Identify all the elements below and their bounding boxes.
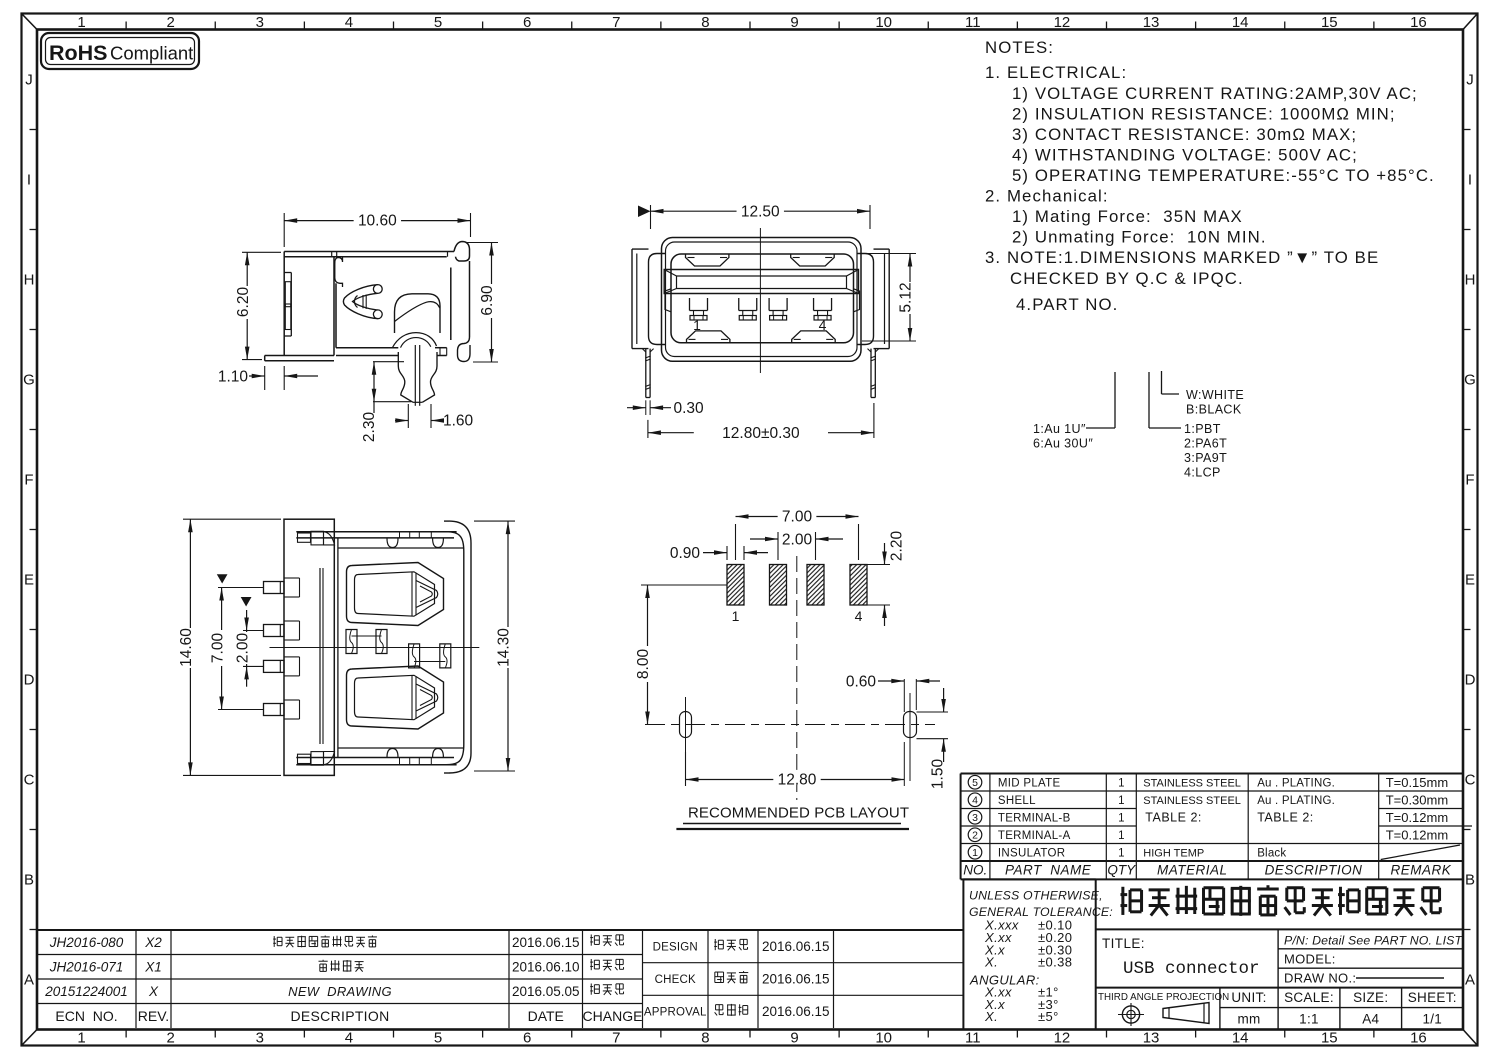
dim 12.50 [650,205,652,229]
svg-text:1: 1 [972,847,978,859]
dim 0.30 [645,400,647,415]
svg-text:D: D [1465,672,1476,689]
svg-text:SCALE:: SCALE: [1284,990,1334,1005]
top view: terminal pins [264,582,285,594]
svg-text:8.00: 8.00 [635,649,652,680]
dim 7.00 with datum [217,574,228,583]
svg-text:11: 11 [965,14,981,31]
side view: shell rear rolled edge [335,257,343,287]
svg-text:1: 1 [1118,777,1124,789]
svg-text:T=0.30mm: T=0.30mm [1386,792,1449,807]
corner diagonals [22,14,38,30]
svg-text:I: I [1468,172,1472,189]
svg-text:1: 1 [1118,847,1124,859]
projection symbol circle [1122,1006,1139,1023]
svg-text:DESIGN: DESIGN [653,941,698,953]
front view: shell opening rounded rect [671,254,854,343]
front view: tongue blade [664,270,858,294]
svg-text:0.30: 0.30 [674,400,705,417]
svg-text:ECN NO.: ECN NO. [55,1008,117,1024]
svg-text:1:Au 1U″: 1:Au 1U″ [1033,422,1086,436]
dim 2.00 with datum [241,597,252,607]
svg-text:0.90: 0.90 [670,545,701,562]
svg-text:5: 5 [434,14,442,31]
svg-text:10.60: 10.60 [358,213,397,230]
svg-text:X2: X2 [144,935,162,950]
svg-text:±5°: ±5° [1038,1009,1059,1024]
projection symbol cone [1163,1003,1209,1024]
svg-text:1. ELECTRICAL:: 1. ELECTRICAL: [985,63,1127,82]
svg-text:1:1: 1:1 [1299,1012,1319,1027]
svg-text:TERMINAL-B: TERMINAL-B [998,812,1071,824]
svg-text:X.: X. [984,1009,998,1024]
svg-text:14.30: 14.30 [496,628,513,667]
svg-text:8: 8 [701,1030,709,1047]
unit/scale/size/sheet grid [1219,988,1221,1030]
svg-text:F: F [24,472,33,489]
dim 7.00 pcb [735,524,737,560]
svg-text:2016.06.15: 2016.06.15 [762,972,830,987]
top view: U contact upper [347,563,444,626]
dim 1.50 pcb [917,711,949,713]
dim 0.60 pcb [903,679,905,712]
svg-text:RECOMMENDED PCB LAYOUT: RECOMMENDED PCB LAYOUT [688,805,909,822]
svg-text:12.80: 12.80 [778,772,817,789]
svg-text:10: 10 [875,14,892,31]
svg-text:6.90: 6.90 [479,285,496,316]
svg-text:H: H [24,272,35,289]
svg-text:Black: Black [1257,847,1286,859]
svg-text:1: 1 [1118,812,1124,824]
front view: outer flange rounded rect [662,238,862,362]
side view: housing front wall [333,257,335,356]
svg-text:MATERIAL: MATERIAL [1157,863,1228,878]
svg-text:NEW DRAWING: NEW DRAWING [288,984,392,999]
svg-text:C: C [1465,772,1476,789]
svg-text:TABLE 2:: TABLE 2: [1257,811,1314,825]
svg-text:2016.06.15: 2016.06.15 [762,939,830,954]
top view: shell right wall + rolled corners [446,532,464,765]
svg-text:TABLE 2:: TABLE 2: [1145,811,1202,825]
side view: bottom-right rolled hook [458,337,471,362]
svg-text:2016.05.05: 2016.05.05 [512,984,580,999]
svg-text:9: 9 [790,1030,798,1047]
svg-text:3. NOTE:1.DIMENSIONS MARKED ”▼: 3. NOTE:1.DIMENSIONS MARKED ”▼” TO BE [985,248,1379,267]
svg-text:2:PA6T: 2:PA6T [1184,437,1227,451]
svg-text:3: 3 [256,1030,264,1047]
svg-text:X1: X1 [144,959,162,974]
svg-text:12.80±0.30: 12.80±0.30 [722,425,800,442]
remark diagonal [1381,845,1460,860]
svg-text:SIZE:: SIZE: [1353,990,1388,1005]
svg-text:T=0.12mm: T=0.12mm [1386,810,1449,825]
svg-text:X.: X. [984,955,998,970]
svg-text:QTY: QTY [1107,863,1136,878]
top view: center line [270,647,480,649]
dim 10.60 [283,213,285,247]
side view: terminal slots on left wall [285,282,291,307]
svg-text:6: 6 [523,1030,531,1047]
svg-text:B: B [24,872,34,889]
svg-text:Au . PLATING.: Au . PLATING. [1257,777,1335,789]
P/N, MODEL, DRAW NO rows [1277,929,1279,987]
side view: top-right rolled hook [454,242,470,262]
dim 14.30 [474,520,515,522]
svg-text:J: J [25,72,33,89]
svg-text:13: 13 [1143,1030,1160,1047]
svg-text:DESCRIPTION: DESCRIPTION [291,1008,390,1024]
svg-text:Au . PLATING.: Au . PLATING. [1257,795,1335,807]
svg-text:NOTES:: NOTES: [985,38,1054,57]
dim 5.12 [862,253,916,255]
revision history table [37,929,963,931]
svg-text:5) OPERATING TEMPERATURE:-55°C: 5) OPERATING TEMPERATURE:-55°C TO +85°C. [1012,166,1435,185]
svg-text:DRAW NO.:: DRAW NO.: [1284,971,1356,986]
svg-text:MODEL:: MODEL: [1284,952,1336,967]
svg-text:INSULATOR: INSULATOR [998,847,1065,859]
svg-text:UNLESS OTHERWISE,: UNLESS OTHERWISE, [969,889,1103,903]
svg-text:DATE: DATE [528,1008,564,1024]
svg-text:2.30: 2.30 [361,412,378,443]
svg-text:2) Unmating Force: 10N MIN.: 2) Unmating Force: 10N MIN. [1012,228,1267,247]
svg-text:16: 16 [1410,14,1427,31]
top view: shell top flange [296,531,456,533]
dim 1.60 [407,404,409,428]
svg-text:JH2016-071: JH2016-071 [49,959,124,974]
svg-text:1) Mating Force: 35N MAX: 1) Mating Force: 35N MAX [1012,207,1243,226]
dim 2.30 [373,361,404,363]
svg-text:2: 2 [167,1030,175,1047]
svg-text:±0.38: ±0.38 [1038,955,1072,970]
svg-text:MID PLATE: MID PLATE [998,777,1061,789]
svg-text:14: 14 [1232,1030,1249,1047]
svg-text:13: 13 [1143,14,1160,31]
svg-text:3: 3 [256,14,264,31]
side view: shell right wall [450,268,452,341]
svg-text:12.50: 12.50 [741,203,780,220]
svg-text:5: 5 [434,1030,442,1047]
dim 2.20 pcb [867,564,890,566]
svg-text:RoHS: RoHS [49,41,108,65]
side view: contact spring (wedge) [343,285,377,319]
svg-text:1: 1 [1118,795,1124,807]
svg-text:SHELL: SHELL [998,795,1036,807]
svg-text:2.00: 2.00 [234,633,251,664]
svg-text:T=0.15mm: T=0.15mm [1386,775,1449,790]
svg-text:4.PART NO.: 4.PART NO. [1016,295,1118,314]
svg-text:T=0.12mm: T=0.12mm [1386,827,1449,842]
svg-text:2016.06.15: 2016.06.15 [762,1004,830,1019]
svg-text:6:Au 30U″: 6:Au 30U″ [1033,437,1093,451]
svg-text:J: J [1466,72,1474,89]
svg-text:2016.06.10: 2016.06.10 [512,959,580,974]
top view: rear housing block [284,519,334,775]
svg-text:A4: A4 [1362,1012,1379,1027]
svg-text:6.20: 6.20 [235,287,252,318]
svg-text:SHEET:: SHEET: [1408,990,1457,1005]
svg-text:14.60: 14.60 [178,628,195,667]
svg-text:4: 4 [819,317,827,333]
svg-text:12: 12 [1054,1030,1071,1047]
svg-text:16: 16 [1410,1030,1427,1047]
svg-text:2: 2 [972,829,978,841]
svg-text:STAINLESS STEEL: STAINLESS STEEL [1143,795,1241,807]
svg-text:5.12: 5.12 [898,282,915,312]
svg-text:E: E [24,572,34,589]
svg-text:11: 11 [965,1030,981,1047]
dim 1.10 [264,366,266,390]
svg-text:Compliant: Compliant [110,43,193,64]
svg-text:9: 9 [790,14,798,31]
svg-text:5: 5 [972,777,978,789]
top view: shell inner edges [337,538,339,758]
flange crimp detail left [298,533,311,542]
side view: latch piece [395,294,441,333]
front view: bottom spring tabs [687,331,730,343]
dim 6.20 [242,251,281,253]
svg-text:7.00: 7.00 [782,509,813,526]
pcb mounting slots [680,712,692,738]
dim 8.00 pcb [641,584,727,586]
front view: center axis line [759,228,761,373]
svg-text:7: 7 [612,1030,620,1047]
svg-text:W:WHITE: W:WHITE [1186,388,1244,402]
svg-text:4:LCP: 4:LCP [1184,466,1221,480]
dim 14.60 [183,518,281,520]
svg-text:USB connector: USB connector [1123,959,1260,979]
svg-text:TERMINAL-A: TERMINAL-A [998,830,1071,842]
dim 0.90 pcb [726,546,728,560]
svg-text:2.20: 2.20 [889,531,906,562]
dim 12.80 pcb [685,752,687,786]
pcb center dashed lines [796,556,798,800]
svg-text:D: D [24,672,35,689]
svg-text:8: 8 [701,14,709,31]
svg-text:1: 1 [732,608,740,624]
svg-text:APPROVAL: APPROVAL [644,1007,707,1019]
svg-text:4: 4 [855,608,863,624]
svg-text:F: F [1465,472,1474,489]
svg-text:4: 4 [345,14,353,31]
parts list table [961,773,1463,775]
svg-text:3:PA9T: 3:PA9T [1184,451,1227,465]
dim 6.90 [466,242,498,244]
svg-text:12: 12 [1054,14,1071,31]
svg-text:0.60: 0.60 [846,674,877,691]
title block [962,879,964,1029]
svg-text:7: 7 [612,14,620,31]
front view: contact pins [689,298,691,311]
svg-text:4: 4 [972,794,978,806]
design/check/approval block [643,962,964,964]
flange bumps top [387,539,398,548]
svg-text:C: C [24,772,35,789]
svg-text:2. Mechanical:: 2. Mechanical: [985,187,1109,206]
svg-text:1: 1 [77,14,85,31]
front view: solder legs [645,349,647,398]
svg-text:14: 14 [1232,14,1249,31]
svg-text:REV.: REV. [138,1008,169,1024]
description cells (CJK pseudo) [273,936,275,947]
side view: kick-stand barb [398,352,413,402]
svg-text:TITLE:: TITLE: [1102,936,1145,951]
svg-text:UNIT:: UNIT: [1231,990,1266,1005]
svg-text:2: 2 [167,14,175,31]
svg-text:15: 15 [1321,14,1338,31]
dim 12.80 +-0.30 [647,420,649,438]
datum triangle marker [638,206,651,218]
top view: U contact lower [347,666,444,729]
side view: shell top plate [284,251,454,253]
svg-text:H: H [1465,272,1476,289]
front view: mount plate side edges [632,248,649,250]
svg-text:4: 4 [345,1030,353,1047]
svg-text:A: A [24,972,34,989]
svg-text:2) INSULATION RESISTANCE: 1000: 2) INSULATION RESISTANCE: 1000MΩ MIN; [1012,105,1396,124]
svg-text:1:PBT: 1:PBT [1184,422,1221,436]
RoHS Compliant badge [41,33,199,69]
svg-text:1) VOLTAGE CURRENT RATING:2AMP: 1) VOLTAGE CURRENT RATING:2AMP,30V AC; [1012,84,1418,103]
svg-text:1: 1 [693,317,701,333]
side view: housing bottom foot [265,355,334,357]
svg-text:1.10: 1.10 [218,369,249,386]
svg-text:X: X [148,984,159,999]
svg-text:PART NAME: PART NAME [1005,863,1092,878]
parts rows content [968,775,982,789]
top view: shell bottom flange [296,757,454,759]
svg-text:3: 3 [972,812,978,824]
svg-text:1.50: 1.50 [930,759,947,790]
svg-text:NO.: NO. [963,863,987,878]
svg-text:G: G [23,372,35,389]
svg-text:1/1: 1/1 [1422,1012,1442,1027]
svg-text:1: 1 [77,1030,85,1047]
svg-text:REMARK: REMARK [1390,863,1451,878]
front view: side latch notches [665,289,671,312]
svg-text:1: 1 [1118,830,1124,842]
svg-text:CHECKED BY Q.C & IPQC.: CHECKED BY Q.C & IPQC. [1010,269,1244,288]
svg-text:DESCRIPTION: DESCRIPTION [1265,863,1363,878]
svg-text:THIRD ANGLE PROJECTION: THIRD ANGLE PROJECTION [1098,992,1229,1003]
svg-text:4) WITHSTANDING VOLTAGE: 500V: 4) WITHSTANDING VOLTAGE: 500V AC; [1012,146,1358,165]
svg-text:2016.06.15: 2016.06.15 [512,935,580,950]
svg-text:JH2016-080: JH2016-080 [49,935,124,950]
front view: top spring tabs [686,255,729,267]
svg-text:10: 10 [875,1030,892,1047]
side view: shell bottom plate [336,347,398,349]
svg-text:E: E [1465,572,1475,589]
svg-text:20151224001: 20151224001 [44,984,128,999]
top view: center crimp brackets [346,630,357,654]
svg-text:B: B [1465,872,1475,889]
front view: rear shell ears [649,254,666,345]
company name (CJK pseudo-glyphs) [1121,887,1124,915]
svg-text:HIGH TEMP: HIGH TEMP [1143,847,1204,859]
svg-text:I: I [27,172,31,189]
svg-text:15: 15 [1321,1030,1338,1047]
svg-text:1.60: 1.60 [443,413,474,430]
svg-text:CHECK: CHECK [655,974,696,986]
svg-text:2.00: 2.00 [782,532,813,549]
dim 2.00 pcb [777,532,779,560]
part-number option tree [1114,372,1116,428]
svg-text:CHANGE: CHANGE [583,1008,643,1024]
svg-text:7.00: 7.00 [209,633,226,664]
svg-text:3) CONTACT RESISTANCE: 30mΩ MA: 3) CONTACT RESISTANCE: 30mΩ MAX; [1012,125,1357,144]
svg-text:P/N: Detail See PART NO. LIST: P/N: Detail See PART NO. LIST [1284,934,1463,948]
svg-text:STAINLESS STEEL: STAINLESS STEEL [1143,777,1241,789]
svg-text:G: G [1464,372,1476,389]
side view: housing left wall [283,252,285,273]
svg-text:B:BLACK: B:BLACK [1186,403,1242,417]
svg-text:6: 6 [523,14,531,31]
svg-text:A: A [1465,972,1475,989]
svg-text:mm: mm [1237,1012,1260,1027]
